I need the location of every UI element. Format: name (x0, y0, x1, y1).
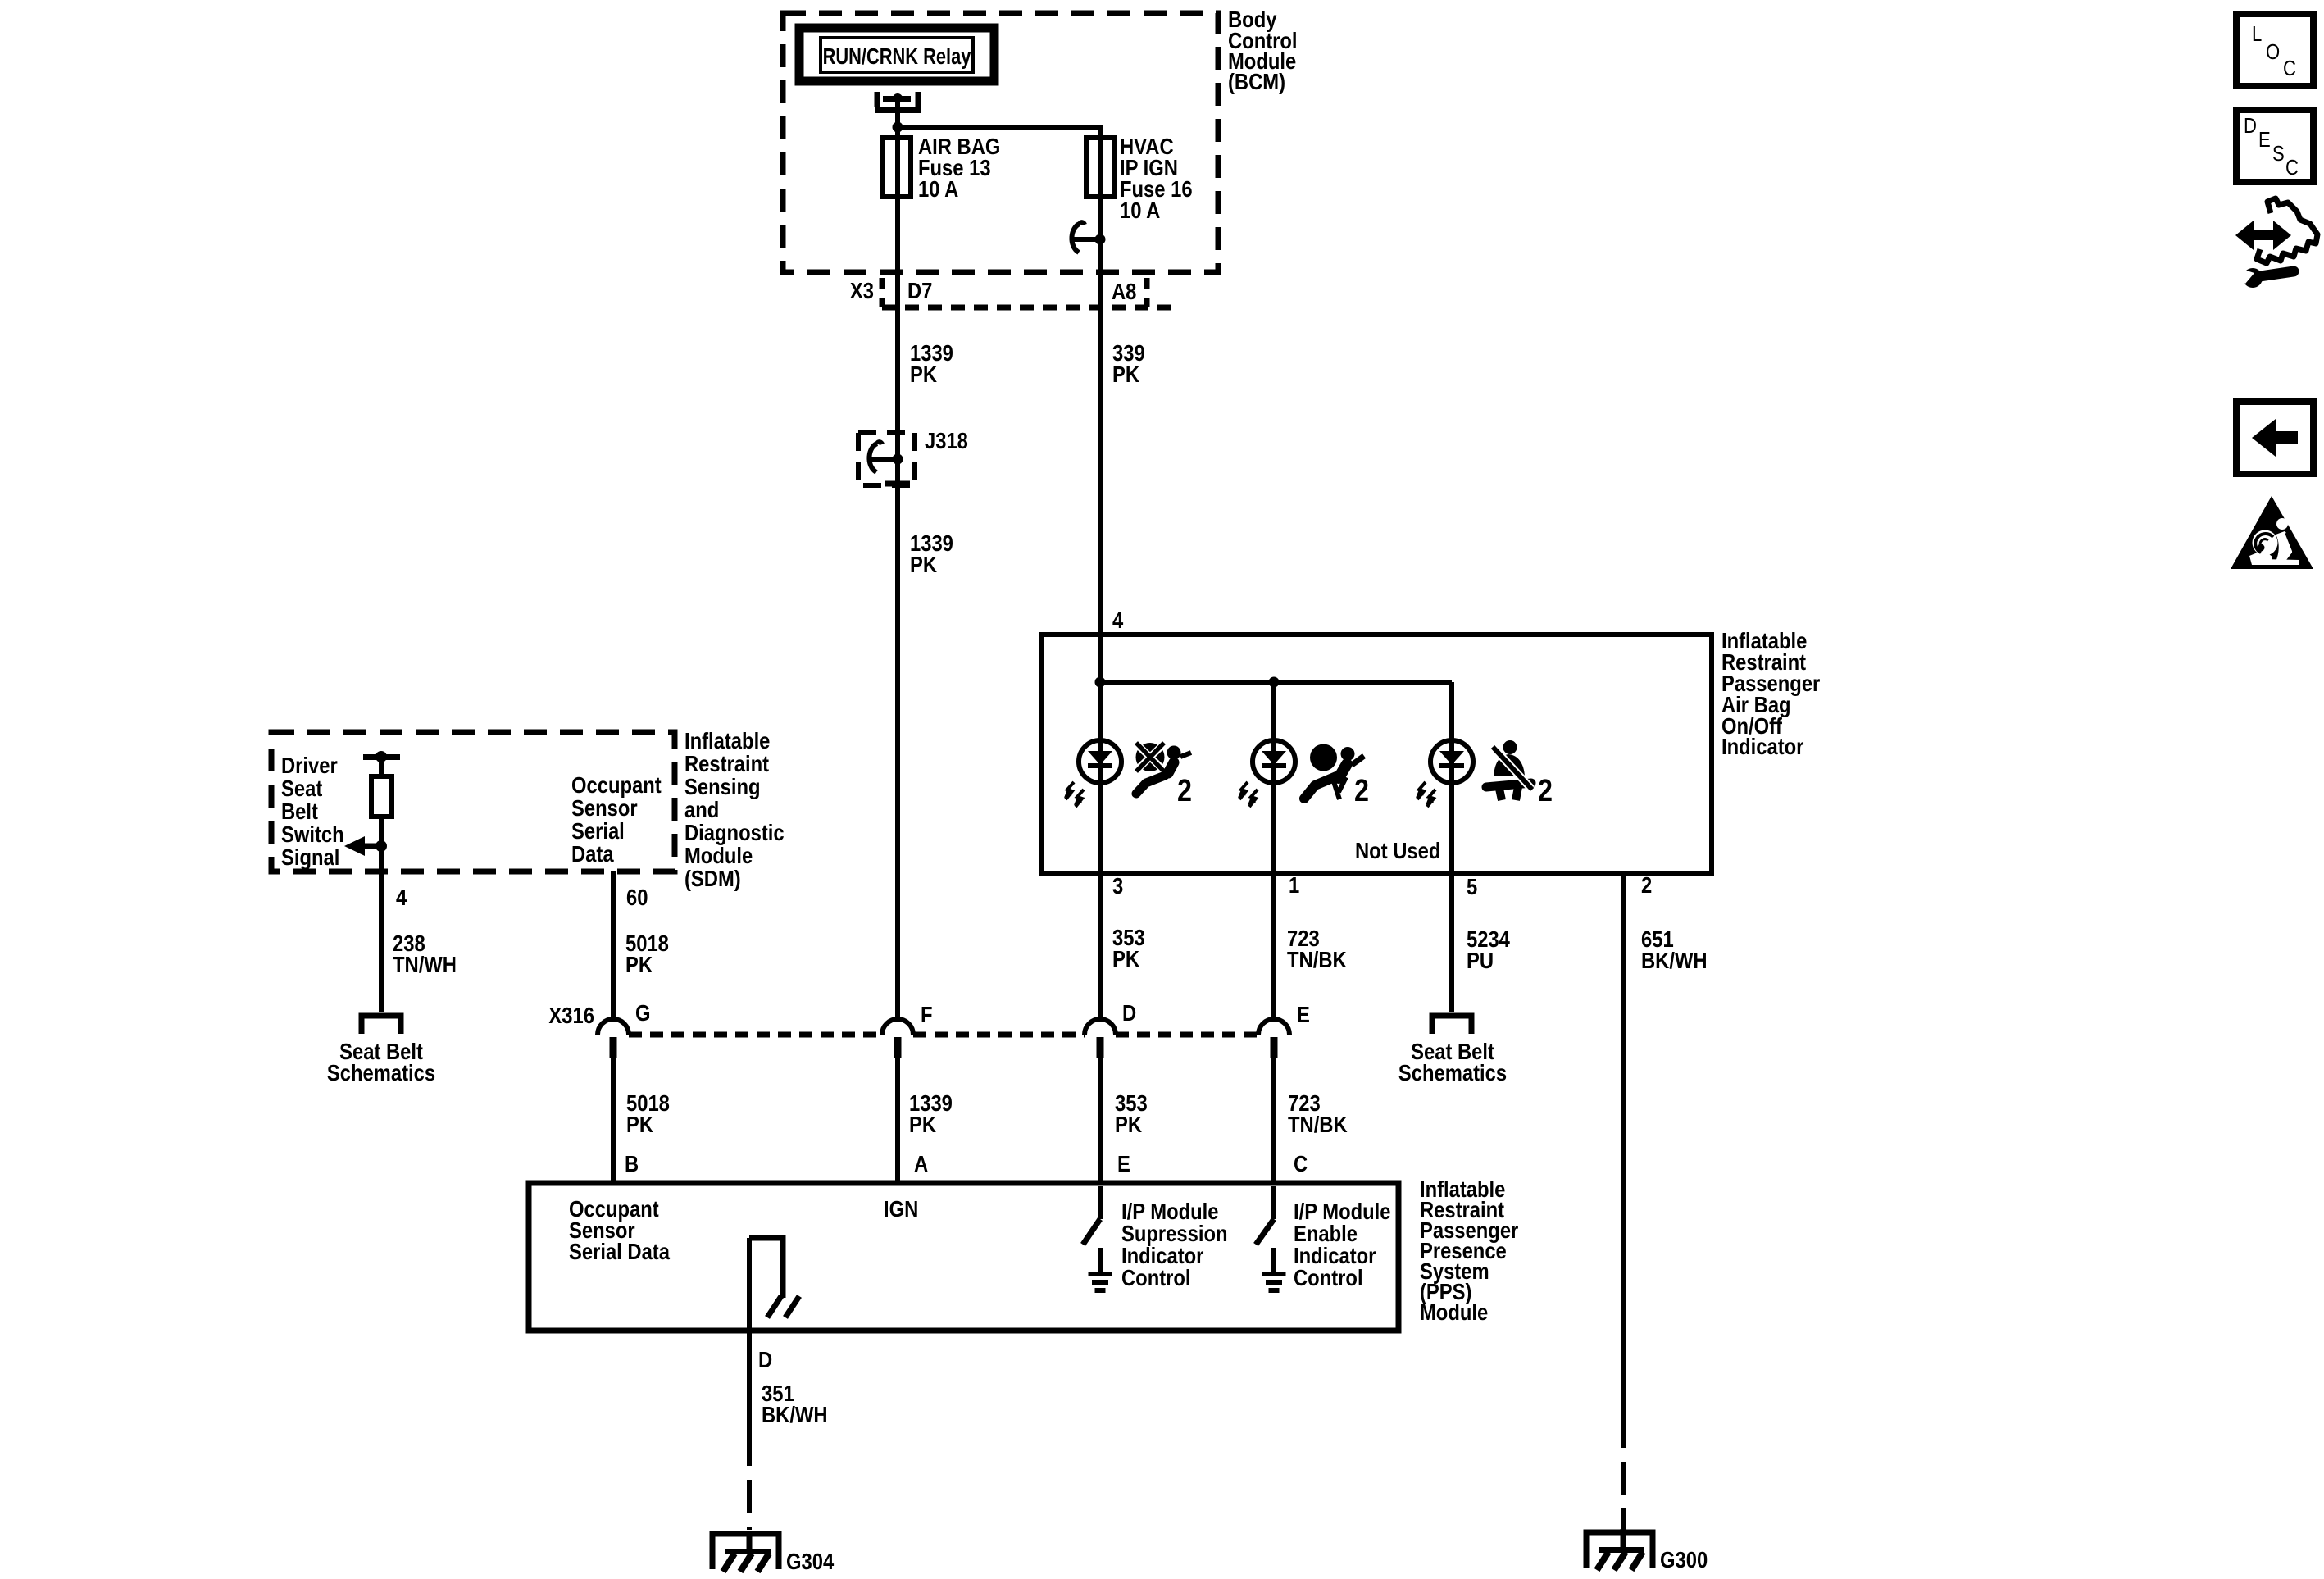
pin label 60 (626, 884, 648, 910)
connector X316 cavity F (882, 1019, 913, 1058)
icon LOC box (2236, 14, 2313, 86)
SDM dashed box (271, 732, 675, 871)
wire label 5018 PK upper (625, 930, 669, 977)
node label IGN (884, 1195, 918, 1222)
svg-text:D: D (758, 1346, 772, 1372)
connector X316 cavity D (1085, 1019, 1116, 1058)
module label PPS right side (1420, 1176, 1518, 1325)
icon air bag warning triangle (2231, 496, 2313, 569)
pin label D7 (907, 277, 932, 303)
label Not Used (1355, 837, 1440, 863)
svg-text:G304: G304 (786, 1548, 835, 1574)
svg-text:PK: PK (1115, 1111, 1142, 1137)
pin label 5 (1467, 873, 1477, 899)
svg-text:Schematics: Schematics (1398, 1059, 1507, 1085)
wire label 723 TN/BK lower (1288, 1090, 1348, 1137)
svg-text:B: B (625, 1150, 639, 1176)
wire 238 TN/WH (379, 817, 384, 1012)
svg-text:Not Used: Not Used (1355, 837, 1440, 863)
svg-text:(BCM): (BCM) (1228, 68, 1285, 94)
node label enable (1294, 1198, 1390, 1290)
svg-text:Control: Control (1121, 1264, 1191, 1290)
wire label 353 PK upper (1112, 924, 1145, 972)
svg-text:Control: Control (1294, 1264, 1363, 1290)
junction node (893, 122, 903, 133)
svg-text:Module: Module (1420, 1299, 1488, 1325)
node label Body Control Module (BCM) (1228, 6, 1298, 94)
pin label G (635, 999, 651, 1026)
svg-text:E: E (1117, 1150, 1130, 1176)
off-page connector seat belt schematics left (362, 1016, 401, 1034)
svg-text:D: D (1122, 999, 1136, 1026)
node label J318 (925, 427, 968, 453)
svg-text:C: C (1294, 1150, 1308, 1176)
svg-text:Schematics: Schematics (327, 1059, 435, 1085)
junction node bus left (1095, 677, 1106, 688)
icon back arrow box (2236, 402, 2313, 474)
svg-text:PK: PK (910, 361, 937, 387)
svg-text:G300: G300 (1660, 1546, 1708, 1572)
LED2 passenger air bag on indicator (1238, 740, 1295, 807)
off-page connector seat belt schematics right (1432, 1016, 1471, 1034)
pin label 3 (1112, 872, 1123, 899)
node label Occupant Sensor Serial Data (571, 771, 662, 867)
svg-text:5: 5 (1467, 873, 1477, 899)
svg-text:60: 60 (626, 884, 648, 910)
pin label E (1297, 1001, 1310, 1027)
svg-text:PK: PK (626, 1111, 653, 1137)
splice J318 exit tick (885, 481, 910, 487)
svg-text:BK/WH: BK/WH (1641, 947, 1708, 973)
pin label B (625, 1150, 639, 1176)
connector X3 row (882, 278, 1172, 307)
wire 5018 PK upper (611, 871, 616, 1021)
wire label 353 PK lower (1115, 1090, 1148, 1137)
svg-text:2: 2 (1538, 774, 1553, 808)
svg-text:PK: PK (910, 551, 937, 577)
earth ground suppression (1089, 1248, 1112, 1293)
relay contact terminal symbol (875, 92, 921, 113)
node label Driver Seat Belt Switch Signal (281, 752, 344, 870)
wire 1339 PK vertical D7 (895, 127, 900, 1021)
splice J318 tap symbol (869, 442, 903, 472)
svg-text:A: A (914, 1150, 928, 1176)
ground G300 (1586, 1529, 1653, 1570)
wire 353 PK lower (1098, 1058, 1103, 1183)
module label right side (1721, 627, 1820, 759)
LED1 passenger air bag off indicator (1064, 740, 1121, 807)
svg-text:BK/WH: BK/WH (762, 1401, 828, 1427)
svg-text:O: O (2266, 40, 2280, 64)
wire label 1339 PK bottom (909, 1090, 953, 1137)
svg-text:TN/BK: TN/BK (1287, 946, 1347, 972)
svg-text:3: 3 (1112, 872, 1123, 899)
svg-text:IGN: IGN (884, 1195, 918, 1222)
svg-text:D7: D7 (907, 277, 932, 303)
pin label D (1122, 999, 1136, 1026)
svg-text:(SDM): (SDM) (684, 865, 741, 891)
icon air bag on (1304, 744, 1364, 800)
icon electrical repair (2235, 198, 2317, 288)
svg-text:TN/WH: TN/WH (393, 951, 457, 977)
svg-text:PK: PK (1112, 361, 1139, 387)
svg-text:Signal: Signal (281, 844, 339, 870)
indicator module box Inflatable Restraint Passenger Air Bag On/Off Indicator (1042, 635, 1712, 874)
pin label D bottom (758, 1346, 772, 1372)
module label SDM (684, 727, 785, 891)
svg-text:PK: PK (1112, 945, 1139, 972)
pin label 2 (1641, 871, 1652, 898)
svg-text:E: E (1297, 1001, 1310, 1027)
wire LED1 branch (1098, 682, 1103, 1021)
svg-text:J318: J318 (925, 427, 968, 453)
PPS module box (529, 1183, 1398, 1331)
wire label 1339 PK upper (910, 339, 953, 387)
svg-text:PK: PK (625, 951, 653, 977)
pin label 4 (1112, 607, 1124, 633)
label 2 third (1538, 774, 1553, 808)
pin label A8 (1112, 278, 1136, 304)
wire LED3 branch (1449, 682, 1454, 1012)
pin label E lower (1117, 1150, 1130, 1176)
svg-text:C: C (2285, 156, 2299, 180)
label G304 (786, 1548, 835, 1574)
pin label 1 (1289, 871, 1299, 898)
label seat belt schematics right (1398, 1038, 1507, 1085)
svg-text:2: 2 (1354, 774, 1369, 808)
earth ground enable (1262, 1248, 1286, 1293)
switch suppression indicator (1083, 1186, 1100, 1245)
terminal bar (363, 751, 400, 762)
svg-text:X316: X316 (548, 1002, 594, 1028)
pin label X3 (850, 277, 874, 303)
svg-text:Indicator: Indicator (1721, 733, 1803, 759)
svg-text:S: S (2272, 142, 2285, 166)
wire 5018 PK lower (611, 1058, 616, 1183)
splice J318 dashed box (858, 432, 915, 485)
value label fuse 13 (918, 133, 1000, 202)
svg-text:RUN/CRNK Relay: RUN/CRNK Relay (823, 43, 971, 69)
svg-text:F: F (921, 1001, 933, 1027)
junction node bus middle (1269, 677, 1280, 688)
wire relay bus to HVAC branch (898, 127, 1100, 138)
svg-text:E: E (2258, 128, 2271, 152)
svg-text:TN/BK: TN/BK (1288, 1111, 1348, 1137)
wire 1339 PK to IGN (895, 1058, 900, 1183)
svg-text:G: G (635, 999, 651, 1026)
svg-text:10 A: 10 A (918, 175, 959, 202)
label 2 second (1354, 774, 1369, 808)
wire label 238 TN/WH (393, 930, 457, 977)
pin label A (914, 1150, 928, 1176)
wire to resistor (379, 757, 384, 776)
wire indicator bus (1100, 680, 1452, 685)
svg-text:PU: PU (1467, 947, 1494, 973)
label 2 first (1177, 774, 1192, 808)
node label Occupant Sensor Serial Data PPS (569, 1195, 670, 1264)
pin label F (921, 1001, 933, 1027)
BCM module dashed box (783, 13, 1218, 272)
wire pin2 651 BK/WH (1621, 874, 1626, 1530)
internal ground trace (749, 1238, 799, 1317)
svg-text:4: 4 (1112, 607, 1124, 633)
svg-text:1: 1 (1289, 871, 1299, 898)
svg-text:10 A: 10 A (1120, 197, 1161, 223)
svg-text:Serial Data: Serial Data (569, 1238, 670, 1264)
label X316 (548, 1002, 594, 1028)
svg-text:4: 4 (396, 884, 407, 910)
svg-text:A8: A8 (1112, 278, 1136, 304)
svg-text:2: 2 (1177, 774, 1192, 808)
svg-text:C: C (2283, 57, 2296, 80)
icon fasten seat belt (1486, 740, 1532, 800)
connector X316 row dashed line (629, 1032, 1258, 1038)
svg-text:D: D (2244, 114, 2257, 138)
switch enable indicator (1256, 1186, 1274, 1245)
wire label 651 BK/WH (1641, 926, 1708, 973)
relay K RUN/CRNK Relay (799, 28, 994, 81)
connector X316 cavity G (598, 1019, 629, 1058)
icon air bag off (1136, 743, 1192, 794)
wire label 339 PK (1112, 339, 1145, 387)
fuse F13 AIR BAG (883, 138, 911, 197)
fuse F16 HVAC (1086, 138, 1114, 197)
ground G304 (712, 1531, 779, 1572)
wire LED2 branch (1271, 682, 1276, 1021)
value label fuse 16 (1120, 133, 1193, 223)
connector X316 cavity E (1258, 1019, 1289, 1058)
wire label 723 TN/BK upper (1287, 925, 1347, 972)
wire 723 TN/BK lower (1271, 1058, 1276, 1183)
wire label 5234 PU (1467, 926, 1510, 973)
wire from relay to junction (895, 98, 900, 127)
wire 351 BK/WH (747, 1238, 752, 1530)
wire label 351 BK/WH (762, 1380, 828, 1427)
connector tap on HVAC output (1071, 222, 1105, 253)
svg-text:PK: PK (909, 1111, 936, 1137)
signal arrow (344, 836, 382, 856)
icon DESC box (2236, 110, 2313, 182)
wire label 1339 PK lower (910, 530, 953, 577)
resistor seat belt switch (371, 776, 392, 817)
label G300 (1660, 1546, 1708, 1572)
junction node arrow tap (375, 840, 387, 852)
pin label C (1294, 1150, 1308, 1176)
node label suppression (1121, 1198, 1228, 1290)
svg-text:Data: Data (571, 840, 614, 867)
svg-text:2: 2 (1641, 871, 1652, 898)
wire 339 PK vertical A8 (1098, 138, 1103, 682)
pin label 4 seat belt (396, 884, 407, 910)
wire label 5018 PK lower (626, 1090, 670, 1137)
svg-text:X3: X3 (850, 277, 874, 303)
LED3 seat belt indicator (1416, 740, 1473, 807)
svg-text:L: L (2252, 22, 2262, 46)
label seat belt schematics left (327, 1038, 435, 1085)
